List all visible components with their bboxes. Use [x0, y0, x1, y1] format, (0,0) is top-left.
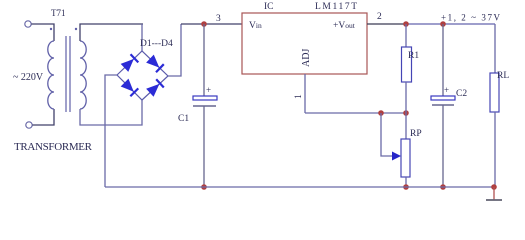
svg-text:2: 2	[377, 12, 382, 22]
svg-text:Vin: Vin	[249, 21, 262, 31]
resistor R1 body	[402, 47, 412, 82]
svg-text:3: 3	[216, 14, 221, 24]
junction dot R1 bottom	[403, 110, 409, 116]
wire top rail right segment to Vin	[181, 23, 242, 25]
capacitor C2 bottom plate	[432, 104, 454, 106]
capacitor C1 stem bottom	[203, 106, 205, 187]
svg-text:R1: R1	[408, 51, 419, 61]
terminal circle bottom input	[26, 122, 32, 128]
potentiometer RP stem top	[405, 113, 407, 139]
phase dot primary	[50, 28, 52, 30]
svg-text:C2: C2	[456, 89, 467, 99]
resistor R1 stem bottom	[405, 82, 407, 113]
svg-text:+: +	[444, 85, 449, 95]
capacitor C2 stem top	[442, 24, 444, 96]
svg-text:~ 220V: ~ 220V	[13, 72, 44, 83]
wire Vout pin to node 2	[367, 23, 406, 25]
terminal circle top input	[25, 21, 31, 27]
phase dot secondary	[75, 28, 77, 30]
svg-text:IC: IC	[264, 2, 274, 12]
resistor RL stem bottom	[494, 112, 496, 187]
svg-text:RP: RP	[410, 129, 422, 139]
wire node 2 to output rail right	[406, 23, 495, 25]
potentiometer RP wiper arrow	[392, 152, 401, 161]
junction dot wiper	[378, 110, 384, 116]
svg-text:RL: RL	[497, 71, 509, 81]
svg-text:ADJ: ADJ	[301, 49, 312, 67]
svg-text:C1: C1	[178, 114, 189, 124]
junction dot R1 top	[403, 21, 409, 27]
potentiometer RP stem bottom	[405, 177, 407, 187]
wire primary top lead	[31, 24, 54, 41]
svg-text:T71: T71	[51, 8, 66, 18]
potentiometer RP wiper wire	[381, 113, 393, 156]
diode D4 (bottom-right)	[146, 79, 164, 97]
wire ADJ horizontal line	[305, 112, 406, 114]
transformer T71 primary winding	[48, 41, 54, 109]
junction dot C1 bottom	[201, 184, 207, 190]
capacitor C2 plus plate	[431, 96, 455, 100]
wire ADJ pin drop	[304, 74, 306, 113]
potentiometer RP body	[401, 139, 410, 177]
diode D3 (bottom-left)	[121, 79, 139, 97]
wire primary bottom lead	[32, 109, 54, 125]
transformer T71 secondary winding	[80, 41, 86, 109]
bottom rail	[105, 186, 495, 188]
op-amp/regulator IC box LM117T	[242, 13, 367, 74]
ground	[493, 187, 495, 200]
capacitor C1 bottom plate	[193, 105, 216, 107]
junction dot RP bottom	[403, 184, 409, 190]
wire secondary top lead / top rail left segment	[80, 24, 143, 41]
svg-text:+: +	[206, 85, 211, 95]
wire bridge minus output to bottom rail	[105, 75, 117, 187]
svg-text:D1---D4: D1---D4	[140, 39, 173, 49]
svg-text:TRANSFORMER: TRANSFORMER	[14, 141, 93, 153]
svg-text:+Vout: +Vout	[333, 21, 356, 31]
capacitor C2 stem bottom	[442, 105, 444, 187]
diode D2 (top-right)	[146, 55, 164, 73]
capacitor C1 plus plate	[193, 96, 217, 100]
wire secondary bottom lead to bridge	[80, 100, 142, 125]
svg-text:1: 1	[294, 94, 304, 99]
capacitor C1 stem top	[203, 24, 205, 96]
diode D1 (top-left)	[121, 54, 139, 72]
resistor RL body	[490, 73, 499, 112]
junction dot C2 top	[440, 21, 446, 27]
junction dot C2 bottom	[440, 184, 446, 190]
node 3 junction dot	[201, 21, 207, 27]
diode bridge D1--D4 diamond edges	[117, 51, 168, 100]
junction dot ground	[491, 184, 497, 190]
resistor R1 stem top	[405, 24, 407, 47]
transformer core	[65, 36, 67, 112]
wire RL drop	[494, 24, 496, 73]
svg-text:+1, 2 ~ 37V: +1, 2 ~ 37V	[441, 13, 501, 23]
wire bridge plus output to top rail	[168, 24, 181, 76]
wire bridge AC top drop	[141, 24, 143, 51]
